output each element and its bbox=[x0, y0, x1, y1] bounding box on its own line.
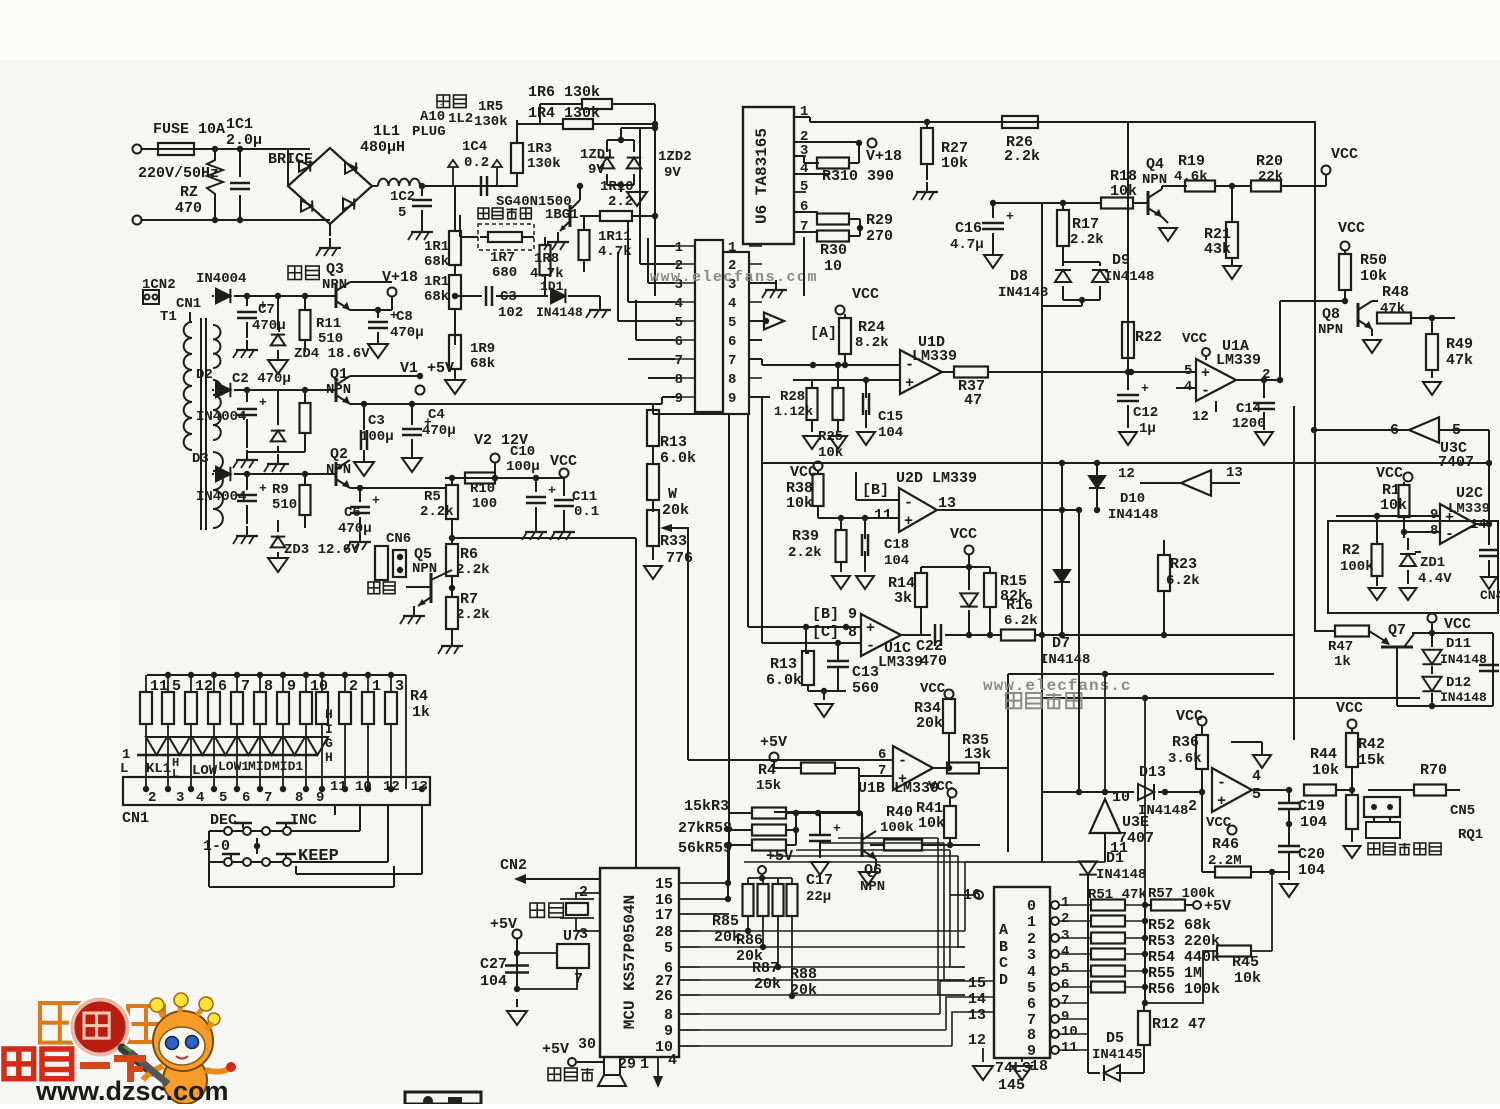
svg-text:CN2: CN2 bbox=[500, 857, 527, 874]
svg-text:3: 3 bbox=[1061, 928, 1069, 944]
svg-text:LM339: LM339 bbox=[912, 348, 957, 365]
svg-text:26: 26 bbox=[655, 988, 673, 1005]
svg-text:MCU KS57P0504N: MCU KS57P0504N bbox=[621, 895, 639, 1029]
svg-text:Q8: Q8 bbox=[1322, 306, 1340, 323]
svg-text:LM339: LM339 bbox=[878, 654, 923, 671]
svg-text:VCC: VCC bbox=[920, 681, 946, 697]
svg-text:+5V: +5V bbox=[760, 734, 787, 751]
svg-text:1: 1 bbox=[640, 1056, 649, 1073]
svg-text:5: 5 bbox=[398, 205, 406, 221]
svg-text:CN1: CN1 bbox=[122, 810, 149, 827]
svg-text:3: 3 bbox=[1027, 947, 1036, 964]
svg-text:C12: C12 bbox=[1133, 405, 1158, 421]
svg-text:IN4148: IN4148 bbox=[1108, 507, 1158, 523]
svg-text:+: + bbox=[833, 821, 841, 836]
svg-text:10k: 10k bbox=[941, 155, 968, 172]
svg-text:R23: R23 bbox=[1170, 556, 1197, 573]
svg-text:R42: R42 bbox=[1358, 736, 1385, 753]
svg-text:NPN: NPN bbox=[326, 462, 351, 478]
svg-text:+: + bbox=[259, 395, 267, 410]
svg-text:C16: C16 bbox=[955, 220, 982, 237]
svg-text:270: 270 bbox=[866, 228, 893, 245]
svg-text:100: 100 bbox=[472, 496, 497, 512]
svg-text:LM339: LM339 bbox=[1216, 352, 1261, 369]
svg-text:8: 8 bbox=[1027, 1027, 1036, 1044]
svg-text:5: 5 bbox=[219, 790, 227, 806]
svg-text:R16: R16 bbox=[1006, 597, 1033, 614]
svg-text:+: + bbox=[904, 513, 913, 530]
svg-text:+: + bbox=[1217, 793, 1226, 810]
svg-text:15kR3: 15kR3 bbox=[684, 798, 729, 815]
svg-text:100k: 100k bbox=[1340, 559, 1374, 575]
svg-text:Q2: Q2 bbox=[330, 446, 348, 463]
svg-text:104: 104 bbox=[1300, 814, 1327, 831]
svg-text:R11: R11 bbox=[316, 316, 341, 332]
svg-text:10: 10 bbox=[355, 779, 372, 795]
svg-text:H: H bbox=[325, 750, 333, 765]
svg-text:R4: R4 bbox=[410, 688, 428, 705]
svg-text:104: 104 bbox=[1298, 862, 1325, 879]
svg-text:4.6k: 4.6k bbox=[1174, 169, 1208, 185]
svg-text:4.7μ: 4.7μ bbox=[950, 237, 984, 253]
svg-text:1R11: 1R11 bbox=[598, 229, 632, 245]
svg-text:2: 2 bbox=[1188, 798, 1197, 815]
svg-text:C7: C7 bbox=[258, 302, 275, 318]
svg-text:2: 2 bbox=[148, 790, 156, 806]
svg-text:102: 102 bbox=[498, 305, 523, 321]
svg-text:10k: 10k bbox=[1234, 970, 1261, 987]
svg-text:C: C bbox=[999, 955, 1008, 972]
svg-text:R25: R25 bbox=[818, 429, 843, 445]
svg-text:Q1: Q1 bbox=[330, 366, 348, 383]
svg-text:220V/50Hz: 220V/50Hz bbox=[138, 165, 219, 182]
svg-text:+: + bbox=[548, 483, 556, 498]
svg-text:A: A bbox=[999, 922, 1008, 939]
svg-text:5: 5 bbox=[675, 315, 683, 331]
svg-text:C27: C27 bbox=[480, 956, 507, 973]
svg-text:1ZD2: 1ZD2 bbox=[658, 149, 692, 165]
svg-text:A10: A10 bbox=[420, 109, 445, 125]
svg-text:Q7: Q7 bbox=[1388, 622, 1406, 639]
svg-text:0.1: 0.1 bbox=[574, 504, 599, 520]
svg-text:20k: 20k bbox=[754, 976, 781, 993]
svg-text:8.2k: 8.2k bbox=[855, 335, 889, 351]
svg-text:15: 15 bbox=[968, 975, 986, 992]
svg-text:ZD4 18.6V: ZD4 18.6V bbox=[294, 346, 370, 362]
svg-text:MID: MID bbox=[248, 759, 272, 774]
svg-text:MID1: MID1 bbox=[272, 759, 303, 774]
svg-text:VCC: VCC bbox=[928, 779, 954, 795]
svg-text:-: - bbox=[1217, 775, 1226, 792]
svg-text:KEEP: KEEP bbox=[298, 847, 339, 866]
svg-text:9: 9 bbox=[1061, 1009, 1069, 1025]
svg-text:1R9: 1R9 bbox=[470, 341, 495, 357]
svg-text:IN4148: IN4148 bbox=[1138, 803, 1188, 819]
svg-text:DEC: DEC bbox=[210, 812, 237, 829]
svg-text:11: 11 bbox=[874, 507, 892, 524]
svg-text:R55 1M: R55 1M bbox=[1148, 965, 1202, 982]
svg-text:1C1: 1C1 bbox=[226, 116, 253, 133]
svg-text:8: 8 bbox=[728, 372, 736, 388]
svg-text:R50: R50 bbox=[1360, 252, 1387, 269]
svg-text:22k: 22k bbox=[1258, 169, 1283, 185]
svg-text:C3: C3 bbox=[500, 289, 517, 305]
svg-text:47: 47 bbox=[964, 392, 982, 409]
svg-text:C19: C19 bbox=[1298, 798, 1325, 815]
svg-text:C4: C4 bbox=[428, 407, 445, 423]
svg-text:IN4148: IN4148 bbox=[536, 305, 583, 320]
svg-text:www.dzsc.com: www.dzsc.com bbox=[35, 1076, 229, 1104]
svg-text:8: 8 bbox=[264, 678, 273, 695]
svg-text:10k: 10k bbox=[918, 815, 945, 832]
svg-text:R30: R30 bbox=[820, 242, 847, 259]
svg-text:IN4145: IN4145 bbox=[1092, 1047, 1142, 1063]
svg-text:C2 470μ: C2 470μ bbox=[232, 371, 291, 387]
svg-text:10k: 10k bbox=[1380, 497, 1407, 514]
svg-text:7: 7 bbox=[675, 353, 683, 369]
svg-text:www.elecfans.com: www.elecfans.com bbox=[650, 269, 818, 286]
svg-text:8: 8 bbox=[664, 1007, 673, 1024]
svg-text:4: 4 bbox=[1252, 768, 1261, 785]
svg-text:470: 470 bbox=[920, 653, 947, 670]
svg-text:KL1: KL1 bbox=[146, 761, 171, 777]
svg-text:15k: 15k bbox=[1358, 752, 1385, 769]
svg-text:2.2k: 2.2k bbox=[1070, 232, 1104, 248]
svg-text:-: - bbox=[905, 357, 914, 374]
svg-text:D10: D10 bbox=[1120, 491, 1145, 507]
svg-text:6: 6 bbox=[1027, 996, 1036, 1013]
svg-text:D13: D13 bbox=[1139, 764, 1166, 781]
svg-text:4: 4 bbox=[1027, 964, 1036, 981]
svg-text:VCC: VCC bbox=[852, 286, 879, 303]
svg-text:-: - bbox=[866, 638, 875, 655]
svg-text:11: 11 bbox=[1061, 1040, 1078, 1056]
svg-text:R53 220k: R53 220k bbox=[1148, 933, 1220, 950]
svg-text:C18: C18 bbox=[884, 537, 909, 553]
svg-text:[B] 9: [B] 9 bbox=[812, 606, 857, 623]
svg-text:1R8: 1R8 bbox=[534, 251, 559, 267]
svg-text:1R1: 1R1 bbox=[424, 274, 449, 290]
svg-text:R48: R48 bbox=[1382, 284, 1409, 301]
svg-text:5: 5 bbox=[1027, 980, 1036, 997]
svg-text:IN4148: IN4148 bbox=[998, 285, 1048, 301]
svg-text:68k: 68k bbox=[470, 356, 495, 372]
svg-text:[A]: [A] bbox=[810, 325, 837, 342]
svg-text:T1: T1 bbox=[160, 309, 177, 325]
svg-text:R17: R17 bbox=[1072, 216, 1099, 233]
svg-text:BRICE: BRICE bbox=[268, 151, 313, 168]
svg-text:FUSE 10A: FUSE 10A bbox=[153, 121, 225, 138]
svg-text:+: + bbox=[259, 481, 267, 496]
svg-text:4.7k: 4.7k bbox=[598, 244, 632, 260]
svg-text:LOW1: LOW1 bbox=[218, 759, 249, 774]
svg-text:104: 104 bbox=[884, 553, 909, 569]
svg-text:9: 9 bbox=[728, 391, 736, 407]
svg-text:R7: R7 bbox=[460, 591, 478, 608]
svg-text:VCC: VCC bbox=[1336, 700, 1363, 717]
svg-text:4: 4 bbox=[196, 790, 204, 806]
svg-text:560: 560 bbox=[852, 680, 879, 697]
svg-text:1C2: 1C2 bbox=[390, 189, 415, 205]
svg-text:10: 10 bbox=[1061, 1024, 1078, 1040]
svg-text:ZD1: ZD1 bbox=[1420, 555, 1445, 571]
svg-text:56kR59: 56kR59 bbox=[678, 840, 732, 857]
svg-text:R85: R85 bbox=[712, 913, 739, 930]
svg-text:130k: 130k bbox=[474, 114, 508, 130]
svg-text:6.0k: 6.0k bbox=[660, 450, 696, 467]
svg-text:D5: D5 bbox=[1106, 1030, 1124, 1047]
svg-text:+: + bbox=[866, 620, 875, 637]
svg-text:6: 6 bbox=[1061, 977, 1069, 993]
svg-text:10k: 10k bbox=[1360, 268, 1387, 285]
svg-text:R9: R9 bbox=[272, 482, 289, 498]
svg-text:47k: 47k bbox=[1446, 352, 1473, 369]
svg-text:RZ: RZ bbox=[180, 184, 198, 201]
svg-text:104: 104 bbox=[878, 425, 903, 441]
svg-text:510: 510 bbox=[318, 331, 343, 347]
svg-text:R5: R5 bbox=[424, 489, 441, 505]
svg-text:2.2k: 2.2k bbox=[456, 607, 490, 623]
svg-text:D8: D8 bbox=[1010, 268, 1028, 285]
svg-text:R56 100k: R56 100k bbox=[1148, 981, 1220, 998]
svg-text:47k: 47k bbox=[1380, 301, 1405, 317]
svg-text:100k: 100k bbox=[880, 820, 914, 836]
svg-text:470μ: 470μ bbox=[422, 423, 456, 439]
svg-text:VCC: VCC bbox=[1182, 331, 1208, 347]
svg-text:6: 6 bbox=[878, 747, 886, 763]
svg-text:C3: C3 bbox=[368, 413, 385, 429]
svg-text:R2: R2 bbox=[1342, 542, 1360, 559]
svg-text:9: 9 bbox=[316, 790, 324, 806]
svg-text:H: H bbox=[325, 707, 333, 722]
svg-text:7: 7 bbox=[264, 790, 272, 806]
svg-text:10k: 10k bbox=[818, 445, 843, 461]
svg-text:27kR58: 27kR58 bbox=[678, 820, 732, 837]
svg-text:L: L bbox=[120, 761, 128, 777]
svg-text:R44: R44 bbox=[1310, 746, 1337, 763]
svg-text:5: 5 bbox=[800, 179, 808, 195]
svg-text:D3: D3 bbox=[192, 451, 209, 467]
svg-text:470μ: 470μ bbox=[252, 318, 286, 334]
svg-text:6: 6 bbox=[675, 334, 683, 350]
svg-text:2.0μ: 2.0μ bbox=[226, 132, 262, 149]
svg-text:R6: R6 bbox=[460, 546, 478, 563]
svg-text:68k: 68k bbox=[424, 254, 449, 270]
svg-text:12: 12 bbox=[1118, 466, 1135, 482]
svg-text:30: 30 bbox=[578, 1036, 596, 1053]
svg-text:R12 47: R12 47 bbox=[1152, 1016, 1206, 1033]
svg-text:R28: R28 bbox=[780, 389, 805, 405]
svg-text:VCC: VCC bbox=[1376, 465, 1403, 482]
svg-text:2.2k: 2.2k bbox=[456, 562, 490, 578]
svg-text:-: - bbox=[1445, 526, 1454, 543]
svg-text:13: 13 bbox=[411, 779, 428, 795]
svg-text:B: B bbox=[999, 939, 1008, 956]
svg-text:3k: 3k bbox=[894, 590, 912, 607]
svg-text:R49: R49 bbox=[1446, 336, 1473, 353]
svg-text:22μ: 22μ bbox=[806, 889, 831, 905]
svg-text:1R1: 1R1 bbox=[424, 239, 449, 255]
svg-text:D2: D2 bbox=[196, 367, 213, 383]
svg-text:1BG1: 1BG1 bbox=[545, 207, 579, 223]
svg-text:28: 28 bbox=[655, 924, 673, 941]
svg-text:480μH: 480μH bbox=[360, 139, 405, 156]
svg-text:20k: 20k bbox=[916, 715, 943, 732]
svg-text:IN4148: IN4148 bbox=[1440, 690, 1487, 705]
svg-text:NPN: NPN bbox=[1318, 322, 1343, 338]
svg-text:4.4V: 4.4V bbox=[1418, 571, 1452, 587]
svg-text:D11: D11 bbox=[1446, 636, 1471, 652]
svg-text:0.2: 0.2 bbox=[464, 155, 489, 171]
svg-text:1R3: 1R3 bbox=[527, 141, 552, 157]
svg-text:13: 13 bbox=[1226, 465, 1243, 481]
svg-text:G: G bbox=[325, 736, 333, 751]
svg-text:-: - bbox=[898, 753, 907, 770]
svg-text:5: 5 bbox=[728, 315, 736, 331]
svg-text:7: 7 bbox=[728, 353, 736, 369]
svg-text:4: 4 bbox=[728, 296, 736, 312]
svg-text:+: + bbox=[1201, 365, 1210, 382]
svg-text:6.2k: 6.2k bbox=[1004, 613, 1038, 629]
svg-text:1R10: 1R10 bbox=[600, 179, 634, 195]
svg-text:1: 1 bbox=[1027, 914, 1036, 931]
svg-text:6.0k: 6.0k bbox=[766, 672, 802, 689]
svg-text:C10: C10 bbox=[510, 444, 535, 460]
svg-text:IN4148: IN4148 bbox=[1040, 652, 1090, 668]
svg-text:D12: D12 bbox=[1446, 675, 1471, 691]
svg-text:C15: C15 bbox=[878, 409, 903, 425]
svg-text:9: 9 bbox=[287, 678, 296, 695]
svg-text:2: 2 bbox=[349, 678, 358, 695]
svg-text:2.2: 2.2 bbox=[608, 194, 633, 210]
svg-text:R33: R33 bbox=[660, 533, 687, 550]
svg-text:D: D bbox=[999, 972, 1008, 989]
svg-text:VCC: VCC bbox=[550, 453, 577, 470]
svg-text:100μ: 100μ bbox=[360, 429, 394, 445]
svg-text:ZD3 12.6V: ZD3 12.6V bbox=[284, 542, 360, 558]
svg-text:1R5: 1R5 bbox=[478, 99, 503, 115]
svg-text:Q3: Q3 bbox=[326, 261, 344, 278]
svg-text:1k: 1k bbox=[412, 704, 430, 721]
svg-text:VCC: VCC bbox=[950, 526, 977, 543]
svg-text:15k: 15k bbox=[756, 778, 781, 794]
svg-text:680: 680 bbox=[492, 265, 517, 281]
svg-text:I: I bbox=[325, 722, 333, 737]
svg-text:IN4148: IN4148 bbox=[1096, 867, 1146, 883]
svg-text:1: 1 bbox=[728, 240, 736, 256]
svg-text:[B]: [B] bbox=[862, 482, 889, 499]
svg-text:V1 +5V: V1 +5V bbox=[400, 360, 454, 377]
svg-text:12: 12 bbox=[383, 779, 400, 795]
svg-text:100μ: 100μ bbox=[506, 459, 540, 475]
svg-text:9V: 9V bbox=[664, 165, 681, 181]
svg-text:12: 12 bbox=[968, 1032, 986, 1049]
svg-text:-: - bbox=[904, 495, 913, 512]
svg-text:68k: 68k bbox=[424, 289, 449, 305]
svg-text:R13: R13 bbox=[770, 656, 797, 673]
svg-text:C8: C8 bbox=[396, 309, 413, 325]
svg-text:C6: C6 bbox=[344, 505, 361, 521]
svg-text:CN5: CN5 bbox=[1450, 803, 1475, 819]
svg-text:2: 2 bbox=[1027, 931, 1036, 948]
svg-text:1-0: 1-0 bbox=[203, 838, 230, 855]
svg-text:-: - bbox=[1201, 383, 1210, 400]
svg-text:VCC: VCC bbox=[1331, 146, 1358, 163]
svg-text:LM339: LM339 bbox=[1448, 501, 1490, 517]
svg-text:VCC: VCC bbox=[1338, 220, 1365, 237]
svg-text:1: 1 bbox=[372, 678, 381, 695]
svg-text:29: 29 bbox=[618, 1056, 636, 1073]
svg-text:R310 390: R310 390 bbox=[822, 168, 894, 185]
svg-text:5: 5 bbox=[1252, 786, 1261, 803]
svg-text:4: 4 bbox=[1061, 944, 1069, 960]
svg-text:IN4004: IN4004 bbox=[196, 271, 246, 287]
svg-text:0: 0 bbox=[1027, 898, 1036, 915]
svg-text:8: 8 bbox=[675, 372, 683, 388]
svg-text:RQ1: RQ1 bbox=[1458, 827, 1483, 843]
svg-text:10: 10 bbox=[824, 258, 842, 275]
svg-text:C20: C20 bbox=[1298, 846, 1325, 863]
svg-text:1D1: 1D1 bbox=[540, 279, 564, 294]
svg-text:9: 9 bbox=[675, 391, 683, 407]
svg-text:1L1: 1L1 bbox=[373, 123, 400, 140]
svg-text:5: 5 bbox=[664, 940, 673, 957]
svg-text:1k: 1k bbox=[1334, 654, 1351, 670]
svg-text:3: 3 bbox=[395, 678, 404, 695]
svg-text:R52 68k: R52 68k bbox=[1148, 917, 1211, 934]
svg-text:1: 1 bbox=[1061, 895, 1069, 911]
svg-text:VCC: VCC bbox=[1444, 616, 1471, 633]
svg-text:CN6: CN6 bbox=[386, 531, 411, 547]
svg-text:U2C: U2C bbox=[1456, 485, 1483, 502]
svg-text:9: 9 bbox=[664, 1023, 673, 1040]
svg-text:13k: 13k bbox=[964, 746, 991, 763]
svg-text:NPN: NPN bbox=[412, 561, 437, 577]
svg-text:V+18: V+18 bbox=[866, 148, 902, 165]
svg-text:W: W bbox=[668, 486, 677, 503]
svg-text:1μ: 1μ bbox=[1139, 421, 1156, 437]
svg-text:R47: R47 bbox=[1328, 639, 1353, 655]
svg-text:1L2: 1L2 bbox=[448, 111, 473, 127]
svg-text:12: 12 bbox=[1192, 409, 1209, 425]
svg-text:+: + bbox=[1141, 381, 1149, 396]
svg-text:PLUG: PLUG bbox=[412, 124, 446, 140]
svg-text:R39: R39 bbox=[792, 528, 819, 545]
svg-text:INC: INC bbox=[290, 812, 317, 829]
svg-text:11: 11 bbox=[330, 779, 347, 795]
svg-text:IN4004: IN4004 bbox=[196, 409, 246, 425]
svg-text:510: 510 bbox=[272, 497, 297, 513]
svg-text:130k: 130k bbox=[527, 156, 561, 172]
svg-text:CN1: CN1 bbox=[176, 296, 201, 312]
svg-text:2.2k: 2.2k bbox=[420, 504, 454, 520]
svg-text:R46: R46 bbox=[1212, 836, 1239, 853]
svg-text:R40: R40 bbox=[886, 804, 913, 821]
svg-text:+5V: +5V bbox=[542, 1041, 569, 1058]
svg-text:U6 TA83165: U6 TA83165 bbox=[753, 128, 771, 224]
svg-text:470: 470 bbox=[175, 200, 202, 217]
svg-text:IN4148: IN4148 bbox=[1104, 269, 1154, 285]
svg-text:6: 6 bbox=[242, 790, 250, 806]
svg-text:15: 15 bbox=[655, 876, 673, 893]
svg-text:10k: 10k bbox=[1312, 762, 1339, 779]
svg-text:CN4: CN4 bbox=[1480, 588, 1500, 603]
svg-text:L: L bbox=[172, 767, 179, 781]
svg-text:R24: R24 bbox=[858, 319, 885, 336]
svg-text:U1B LM339: U1B LM339 bbox=[858, 780, 939, 797]
svg-text:13: 13 bbox=[968, 1007, 986, 1024]
svg-text:R20: R20 bbox=[1256, 153, 1283, 170]
